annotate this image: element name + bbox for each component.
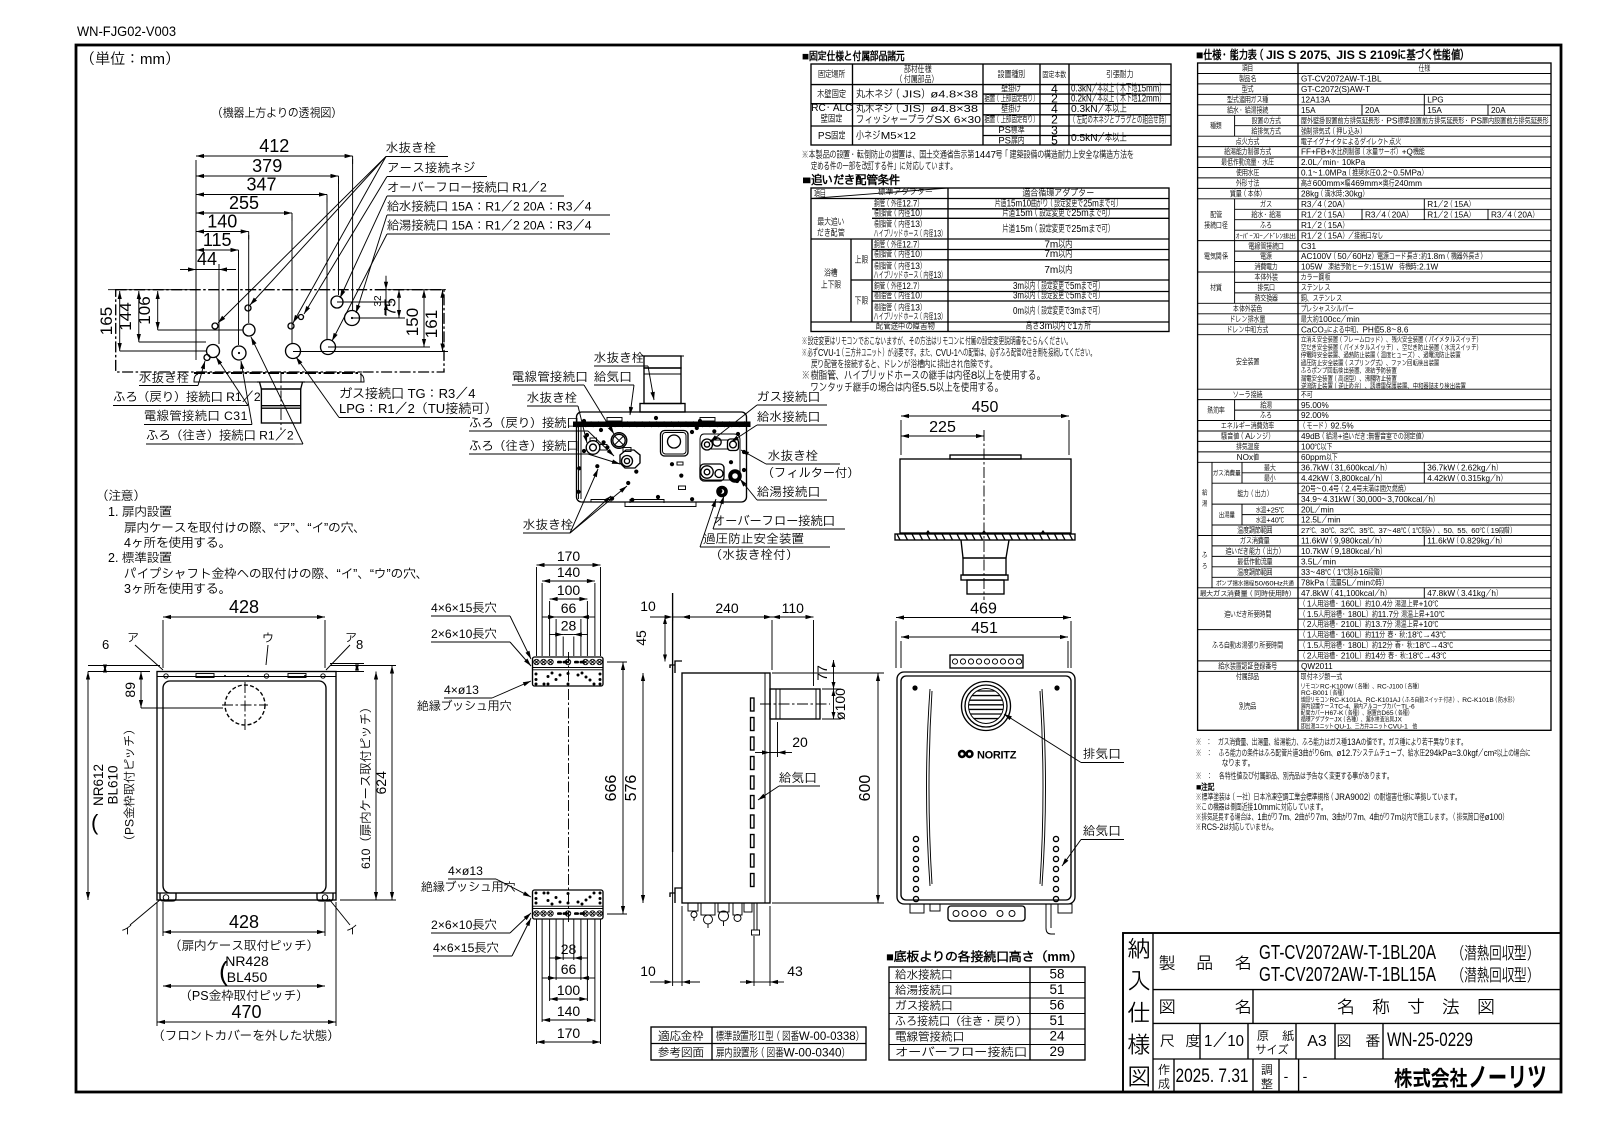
svg-text:即出湯ユニットQU-1、三方弁ユニットCVU-1 他: 即出湯ユニットQU-1、三方弁ユニットCVU-1 他 xyxy=(1300,721,1417,730)
svg-text:ふ: ふ xyxy=(1202,551,1208,560)
svg-text:43: 43 xyxy=(787,963,803,979)
svg-text:整: 整 xyxy=(1261,1077,1273,1091)
svg-text:原: 原 xyxy=(1257,1029,1269,1043)
row4 date xyxy=(1173,1059,1175,1092)
svg-text:製: 製 xyxy=(1159,955,1176,973)
port overflow xyxy=(331,296,343,308)
svg-text:※この機器は側面近接10mmに対応しています。: ※この機器は側面近接10mmに対応しています。 xyxy=(1196,801,1327,812)
svg-text:28: 28 xyxy=(561,618,577,634)
svg-text:給気口: 給気口 xyxy=(779,771,817,785)
exhaust hole dashed xyxy=(225,685,265,725)
svg-text:R1／2（15A）: R1／2（15A） xyxy=(1427,210,1474,219)
port furo-out xyxy=(243,324,255,336)
svg-text:(: ( xyxy=(91,810,99,835)
dim NR612 BL610 xyxy=(87,672,89,901)
svg-text:666: 666 xyxy=(603,775,620,802)
drain plugs small xyxy=(212,323,218,329)
rail top F xyxy=(533,657,604,686)
svg-text:11.6kW（0.829kg／h）: 11.6kW（0.829kg／h） xyxy=(1427,537,1506,546)
svg-text:調: 調 xyxy=(1261,1063,1273,1077)
svg-text:ø100: ø100 xyxy=(832,688,848,720)
dim 77 xyxy=(822,688,841,690)
center line duct xyxy=(280,372,282,430)
dim 412 xyxy=(196,155,353,157)
vent holes G xyxy=(913,836,918,901)
svg-text:ｵｰﾊﾞｰﾌﾛｰ／ﾄﾞﾚﾝ排出: ｵｰﾊﾞｰﾌﾛｰ／ﾄﾞﾚﾝ排出 xyxy=(1235,232,1297,240)
svg-text:なります。: なります。 xyxy=(1222,758,1254,768)
svg-text:追いだき所要時間: 追いだき所要時間 xyxy=(1224,609,1271,619)
svg-text:75: 75 xyxy=(383,298,400,316)
svg-text:株式会社: 株式会社 xyxy=(1394,1067,1468,1091)
svg-text:44: 44 xyxy=(197,249,217,269)
svg-text:428: 428 xyxy=(229,597,259,617)
port water in xyxy=(345,311,360,326)
rail bottom F xyxy=(533,890,604,919)
svg-text:140: 140 xyxy=(557,1003,581,1019)
svg-text:GT-C2072(S)AW-T: GT-C2072(S)AW-T xyxy=(1301,85,1370,94)
svg-text:据置（上部固定有り）: 据置（上部固定有り） xyxy=(985,115,1039,125)
right manifold frame xyxy=(700,434,740,480)
svg-text:図: 図 xyxy=(1128,1064,1151,1090)
dim 469 xyxy=(896,617,1071,619)
svg-text:ふろ接続口（往き・戻り）: ふろ接続口（往き・戻り） xyxy=(895,1014,1027,1028)
svg-text:4×ø13: 4×ø13 xyxy=(448,864,483,878)
svg-text:240: 240 xyxy=(715,600,739,616)
svg-text:図: 図 xyxy=(1159,999,1176,1017)
exhaust circle xyxy=(962,682,1011,731)
svg-text:※樹脂管、ハイブリッドホースの継手は内径8以上を使用する。: ※樹脂管、ハイブリッドホースの継手は内径8以上を使用する。 xyxy=(802,369,1045,382)
svg-text:浴槽: 浴槽 xyxy=(824,268,838,279)
svg-text:12A13A: 12A13A xyxy=(1301,96,1331,105)
bottom feet E xyxy=(157,892,336,894)
svg-text:作: 作 xyxy=(1158,1063,1170,1077)
svg-text:消費電力: 消費電力 xyxy=(1255,263,1279,272)
svg-text:33～48℃（1℃刻み16段階）: 33～48℃（1℃刻み16段階） xyxy=(1301,567,1386,577)
svg-text:水抜き栓: 水抜き栓 xyxy=(768,449,819,463)
svg-text:熱交換器: 熱交換器 xyxy=(1255,293,1279,303)
svg-text:428: 428 xyxy=(229,912,259,932)
svg-text:フィッシャープラグSX 6×30: フィッシャープラグSX 6×30 xyxy=(856,114,981,126)
svg-text:（注意）: （注意） xyxy=(96,489,146,503)
svg-text:255: 255 xyxy=(229,193,259,213)
svg-text:オーバーフロー接続口: オーバーフロー接続口 xyxy=(895,1045,1027,1059)
svg-text:扉内ケースを取付けの際、“ア”、“イ”の穴、: 扉内ケースを取付けの際、“ア”、“イ”の穴、 xyxy=(124,521,366,535)
svg-text:紙: 紙 xyxy=(1282,1029,1294,1043)
svg-text:4ヶ所を使用する。: 4ヶ所を使用する。 xyxy=(124,536,231,550)
conduit screw C31 xyxy=(611,433,627,449)
svg-text:給排気方式: 給排気方式 xyxy=(1251,126,1282,136)
svg-text:パイプシャフト金枠への取付けの際、“イ”、“ウ”の穴、: パイプシャフト金枠への取付けの際、“イ”、“ウ”の穴、 xyxy=(124,567,428,581)
svg-text:下限: 下限 xyxy=(855,296,869,307)
svg-text:水温+40℃: 水温+40℃ xyxy=(1256,516,1285,525)
svg-text:ハイブリッドホース（内径13）: ハイブリッドホース（内径13） xyxy=(873,312,946,322)
svg-text:WN-25-0229: WN-25-0229 xyxy=(1387,1029,1473,1051)
svg-text:品: 品 xyxy=(1197,955,1214,973)
svg-text:100℃以下: 100℃以下 xyxy=(1301,443,1332,452)
dim 44 xyxy=(195,263,197,360)
table oidaki diagonal xyxy=(811,188,948,199)
svg-text:電線管接続口: 電線管接続口 xyxy=(895,1030,964,1044)
svg-text:ガス接続口 TG：R3／4: ガス接続口 TG：R3／4 xyxy=(339,386,476,401)
svg-text:給水接続口: 給水接続口 xyxy=(895,968,953,982)
svg-text:2. 標準設置: 2. 標準設置 xyxy=(108,551,172,565)
svg-text:最大追い: 最大追い xyxy=(816,217,844,228)
svg-text:※ ： ふろ能力の条件はふろ配管片道3曲がり6m、ø12.7: ※ ： ふろ能力の条件はふろ配管片道3曲がり6m、ø12.7システムチューブ、給… xyxy=(1196,747,1531,758)
svg-text:出湯量: 出湯量 xyxy=(1219,510,1235,519)
svg-text:2×6×10長穴: 2×6×10長穴 xyxy=(431,627,497,641)
svg-text:（PS金枠取付ピッチ）: （PS金枠取付ピッチ） xyxy=(123,723,137,847)
svg-text:15A: 15A xyxy=(1301,106,1316,115)
dim 75 xyxy=(398,290,400,318)
svg-text:壁掛け: 壁掛け xyxy=(1000,104,1022,115)
svg-text:R1／2（15A）: R1／2（15A） xyxy=(1427,200,1474,209)
side body F xyxy=(682,673,770,903)
svg-text:成: 成 xyxy=(1158,1077,1170,1091)
svg-text:上限: 上限 xyxy=(855,255,869,266)
svg-text:R1／2（15A）: R1／2（15A） xyxy=(1301,210,1348,219)
svg-text:34.9～4.31kW（30,000～3,700kcal／h: 34.9～4.31kW（30,000～3,700kcal／h） xyxy=(1301,495,1439,504)
svg-text:R3／4（20A）: R3／4（20A） xyxy=(1301,200,1348,209)
svg-text:469: 469 xyxy=(970,601,997,618)
svg-text:別売品: 別売品 xyxy=(1239,702,1257,711)
svg-text:ハイブリッドホース（内径13）: ハイブリッドホース（内径13） xyxy=(873,229,946,239)
svg-text:過圧防止安全装置: 過圧防止安全装置 xyxy=(703,532,805,546)
svg-text:※必ずCVU-1（三方弁ユニット）が必要です。また、CVU-: ※必ずCVU-1（三方弁ユニット）が必要です。また、CVU-1への配管は、必ずふ… xyxy=(802,347,1096,359)
svg-text:47.8kW（41,100kcal／h）: 47.8kW（41,100kcal／h） xyxy=(1301,589,1391,598)
svg-text:ワンタッチ継手の場合は内径5.5以上を使用する。: ワンタッチ継手の場合は内径5.5以上を使用する。 xyxy=(811,381,1003,394)
table heights grid xyxy=(889,967,1085,1060)
svg-text:だき配管: だき配管 xyxy=(817,227,845,239)
svg-text:名: 名 xyxy=(1235,999,1252,1017)
svg-text:※排気延長する場合は、1曲がり7m、2曲がり7m、3曲がり7: ※排気延長する場合は、1曲がり7m、2曲がり7m、3曲がり7m、4曲がり7m以内… xyxy=(1196,811,1508,822)
svg-text:排気口: 排気口 xyxy=(1257,284,1275,293)
svg-text:-: - xyxy=(1284,1068,1289,1084)
svg-text:ふろ: ふろ xyxy=(1260,411,1272,420)
port gas xyxy=(286,344,301,359)
svg-text:2×6×10長穴: 2×6×10長穴 xyxy=(431,918,497,932)
svg-text:給水・給湯接続: 給水・給湯接続 xyxy=(1226,105,1268,115)
dim 255 xyxy=(196,212,292,214)
svg-text:本体外装: 本体外装 xyxy=(1254,272,1279,282)
svg-text:ドレン排水量: ドレン排水量 xyxy=(1230,315,1265,324)
svg-text:設置種別: 設置種別 xyxy=(998,69,1025,81)
bracket trapezoid G xyxy=(961,540,1009,558)
svg-text:称: 称 xyxy=(1372,997,1390,1017)
svg-text:1／10: 1／10 xyxy=(1204,1033,1244,1050)
svg-text:（1.5人用浴槽・180L）約11.7分 湯温上昇+10℃: （1.5人用浴槽・180L）約11.7分 湯温上昇+10℃ xyxy=(1301,609,1445,619)
front body G xyxy=(897,672,1075,904)
svg-text:140: 140 xyxy=(207,212,237,232)
svg-text:20L／min: 20L／min xyxy=(1301,505,1334,514)
svg-text:576: 576 xyxy=(623,775,640,802)
dim 347 xyxy=(196,194,327,196)
svg-text:排気温度: 排気温度 xyxy=(1236,442,1260,452)
dim 428 bottom xyxy=(163,931,325,933)
svg-text:GT-CV2072AW-T-1BL: GT-CV2072AW-T-1BL xyxy=(1301,75,1382,84)
mid valve furo xyxy=(620,450,640,468)
svg-text:外形寸法: 外形寸法 xyxy=(1236,178,1260,188)
svg-text:水温+25℃: 水温+25℃ xyxy=(1256,505,1285,514)
svg-text:ふろ: ふろ xyxy=(1260,221,1272,230)
small dots D xyxy=(585,433,589,437)
svg-text:騒音値（Aレンジ）: 騒音値（Aレンジ） xyxy=(1221,432,1274,441)
svg-text:ふろ（往き）接続口 R1／2: ふろ（往き）接続口 R1／2 xyxy=(146,429,294,443)
svg-text:設置の方式: 設置の方式 xyxy=(1252,116,1282,125)
svg-text:106: 106 xyxy=(135,296,154,324)
svg-text:ドレン中和方式: ドレン中和方式 xyxy=(1227,325,1268,334)
svg-text:51: 51 xyxy=(1049,982,1064,997)
dim o100 xyxy=(822,718,841,720)
svg-text:固定場所: 固定場所 xyxy=(818,69,846,81)
svg-text:NR428: NR428 xyxy=(225,953,269,969)
svg-text:20A: 20A xyxy=(1491,106,1506,115)
svg-text:最大ガス消費量（同時使用時）: 最大ガス消費量（同時使用時） xyxy=(1200,589,1296,598)
svg-text:R3／4（20A）: R3／4（20A） xyxy=(1491,210,1538,219)
svg-text:適合循環アダプター: 適合循環アダプター xyxy=(1023,187,1095,199)
svg-text:固定本数: 固定本数 xyxy=(1043,70,1067,80)
svg-text:イ: イ xyxy=(121,923,133,937)
svg-text:24: 24 xyxy=(1049,1029,1065,1044)
svg-text:電線管接続口: 電線管接続口 xyxy=(512,370,588,384)
svg-text:給水接続口: 給水接続口 xyxy=(757,410,820,424)
svg-text:■追いだき配管条件: ■追いだき配管条件 xyxy=(802,173,901,187)
svg-text:20: 20 xyxy=(792,734,808,750)
svg-text:■固定仕様と付属部品諸元: ■固定仕様と付属部品諸元 xyxy=(802,49,905,63)
overflow dark xyxy=(716,486,728,498)
svg-text:（単位：mm）: （単位：mm） xyxy=(80,50,180,68)
svg-text:7m以内: 7m以内 xyxy=(1044,265,1072,276)
svg-text:100: 100 xyxy=(557,582,581,598)
svg-text:PS標準: PS標準 xyxy=(998,125,1025,136)
svg-text:AC100V（50／60Hz）電源コード長さ:約1.8m（機: AC100V（50／60Hz）電源コード長さ:約1.8m（機器外長さ） xyxy=(1301,251,1486,261)
svg-text:ふろ（往き）接続口: ふろ（往き）接続口 xyxy=(469,439,579,453)
svg-text:451: 451 xyxy=(971,620,998,637)
svg-text:（フィルター付）: （フィルター付） xyxy=(762,466,860,480)
spec texts xyxy=(1200,63,1549,730)
svg-text:取付ネジ類一式: 取付ネジ類一式 xyxy=(1300,672,1342,682)
svg-text:※標準塗装は（一社）日本冷凍空調工業会標準規格（JRA900: ※標準塗装は（一社）日本冷凍空調工業会標準規格（JRA9002）の耐塩害仕様に準… xyxy=(1196,791,1461,802)
ladder bottom F xyxy=(563,957,574,959)
dim 450 xyxy=(901,415,1069,417)
bottom bracket side xyxy=(670,888,682,903)
dim 89 xyxy=(140,672,142,709)
svg-text:（1人用浴槽・160L）約10.4分 湯温上昇+10℃: （1人用浴槽・160L）約10.4分 湯温上昇+10℃ xyxy=(1301,598,1439,608)
svg-text:4.42kW（0.315kg／h）: 4.42kW（0.315kg／h） xyxy=(1427,474,1506,483)
svg-text:0.1～1.0MPa（推奨水圧0.2～0.5MPa）: 0.1～1.0MPa（推奨水圧0.2～0.5MPa） xyxy=(1301,168,1427,178)
svg-text:115: 115 xyxy=(203,230,232,250)
svg-text:3m以内（設定変更で5mまで可）: 3m以内（設定変更で5mまで可） xyxy=(1013,291,1104,302)
svg-text:45: 45 xyxy=(633,630,649,646)
svg-text:※本製品の設置・転倒防止の措置は、国土交通省告示第1447号: ※本製品の設置・転倒防止の措置は、国土交通省告示第1447号「建築設備の構造耐力… xyxy=(802,149,1134,161)
dim 624 right xyxy=(391,666,393,901)
svg-text:（PS金枠取付ピッチ）: （PS金枠取付ピッチ） xyxy=(179,989,308,1003)
svg-text:※ ： ガス消費量、出湯量、給湯能力、ふろ能力はガス種13A: ※ ： ガス消費量、出湯量、給湯能力、ふろ能力はガス種13Aの値です。ガス種によ… xyxy=(1196,736,1467,747)
svg-text:165: 165 xyxy=(97,307,116,335)
svg-text:2.0L／min・10kPa: 2.0L／min・10kPa xyxy=(1301,158,1366,167)
svg-text:47.8kW（3.41kg／h）: 47.8kW（3.41kg／h） xyxy=(1427,589,1502,598)
drain small l xyxy=(204,355,210,361)
svg-text:給湯接続口: 給湯接続口 xyxy=(895,983,953,997)
svg-text:製品名: 製品名 xyxy=(1238,75,1257,84)
svg-text:ア: ア xyxy=(127,631,139,645)
bottom tabs xyxy=(590,499,592,502)
svg-text:扉内設置形（図番W-00-0340）: 扉内設置形（図番W-00-0340） xyxy=(716,1047,850,1060)
svg-text:項目: 項目 xyxy=(1242,64,1254,73)
svg-text:本体外装色: 本体外装色 xyxy=(1232,304,1263,314)
svg-text:29: 29 xyxy=(1049,1044,1064,1059)
svg-text:49dB（給湯+追いだき:無響音室での測定値）: 49dB（給湯+追いだき:無響音室での測定値） xyxy=(1301,431,1427,441)
svg-text:水抜き栓: 水抜き栓 xyxy=(386,141,437,155)
svg-text:片道15m（設定変更で25mまで可）: 片道15m（設定変更で25mまで可） xyxy=(1003,223,1115,235)
svg-text:寸: 寸 xyxy=(1407,997,1425,1017)
row3 scale xyxy=(1199,1023,1201,1059)
svg-text:C31: C31 xyxy=(1301,242,1316,251)
port hot water xyxy=(321,340,336,355)
side dims top xyxy=(672,613,674,621)
svg-text:（機器上方よりの透視図）: （機器上方よりの透視図） xyxy=(212,106,342,120)
svg-text:60ppm以下: 60ppm以下 xyxy=(1301,453,1338,462)
svg-text:最低作動流量・水圧: 最低作動流量・水圧 xyxy=(1220,157,1274,167)
svg-text:ふろ（戻り）接続口: ふろ（戻り）接続口 xyxy=(469,416,579,430)
svg-text:36.7kW（2.62kg／h）: 36.7kW（2.62kg／h） xyxy=(1427,464,1502,473)
svg-text:配管途中の障害物: 配管途中の障害物 xyxy=(876,320,935,331)
ladder top F xyxy=(537,564,601,566)
svg-text:ガス消費量: ガス消費量 xyxy=(1212,469,1241,478)
svg-text:150: 150 xyxy=(403,308,422,336)
svg-text:電線管接続口 C31: 電線管接続口 C31 xyxy=(144,409,248,423)
svg-text:78kPa（流量5L／minの時）: 78kPa（流量5L／minの時） xyxy=(1301,578,1388,587)
svg-text:450: 450 xyxy=(972,399,999,416)
svg-text:PS扉内: PS扉内 xyxy=(998,136,1024,147)
svg-text:170: 170 xyxy=(557,1025,581,1041)
svg-text:ガス消費量: ガス消費量 xyxy=(1240,536,1270,546)
corner screws xyxy=(912,685,917,690)
svg-text:木壁固定: 木壁固定 xyxy=(816,90,846,101)
dim 379 xyxy=(196,175,339,177)
svg-text:（モード）92.5%: （モード）92.5% xyxy=(1301,422,1354,431)
noritz logo G xyxy=(958,750,974,758)
svg-text:2025. 7.31: 2025. 7.31 xyxy=(1176,1066,1249,1087)
svg-text:BL450: BL450 xyxy=(227,969,268,985)
svg-text:オーバーフロー接続口: オーバーフロー接続口 xyxy=(713,514,835,528)
svg-text:89: 89 xyxy=(122,682,138,698)
top bracket G xyxy=(950,655,1023,668)
svg-text:（水抜き栓付）: （水抜き栓付） xyxy=(710,548,799,562)
svg-text:470: 470 xyxy=(231,1002,261,1022)
svg-text:電子イグナイタによるダイレクト点火: 電子イグナイタによるダイレクト点火 xyxy=(1301,136,1401,146)
svg-text:エネルギー消費効率: エネルギー消費効率 xyxy=(1221,421,1274,431)
svg-text:66: 66 xyxy=(561,961,577,977)
body outline top view xyxy=(116,290,444,372)
svg-text:347: 347 xyxy=(246,175,276,195)
top bracket side xyxy=(670,661,682,673)
water inlet cluster xyxy=(702,439,713,450)
svg-text:20A: 20A xyxy=(1365,106,1380,115)
svg-text:R1／2（15A）／接続口なし: R1／2（15A）／接続口なし xyxy=(1301,230,1384,240)
svg-text:給水接続口 15A：R1／2 20A：R3／4: 給水接続口 15A：R1／2 20A：R3／4 xyxy=(387,200,592,214)
flange G xyxy=(895,534,1075,540)
svg-text:銅管（外径12.7）: 銅管（外径12.7） xyxy=(873,199,923,209)
svg-text:湯: 湯 xyxy=(1202,499,1207,508)
svg-text:不可: 不可 xyxy=(1300,390,1313,399)
svg-text:5: 5 xyxy=(1051,134,1058,148)
svg-text:標準アダプター: 標準アダプター xyxy=(878,187,933,197)
svg-text:58: 58 xyxy=(1049,967,1064,982)
svg-text:増設リモコンRC-K101A、RC-K101AJ（ふろ自動ス: 増設リモコンRC-K101A、RC-K101AJ（ふろ自動スイッチ付き）、RC-… xyxy=(1300,695,1518,704)
center line G xyxy=(983,430,985,600)
svg-text:温度調節範囲: 温度調節範囲 xyxy=(1236,567,1272,577)
dim 115 xyxy=(196,249,239,251)
svg-text:170: 170 xyxy=(557,548,581,564)
svg-text:144: 144 xyxy=(116,302,135,330)
svg-text:GT-CV2072AW-T-1BL15A: GT-CV2072AW-T-1BL15A xyxy=(1259,964,1437,986)
svg-text:熱効率: 熱効率 xyxy=(1207,406,1225,415)
svg-text:法: 法 xyxy=(1442,997,1460,1017)
svg-text:0m以内（設定変更で3mまで可）: 0m以内（設定変更で3mまで可） xyxy=(1013,306,1104,317)
svg-text:WN-FJG02-V003: WN-FJG02-V003 xyxy=(77,23,176,39)
svg-text:66: 66 xyxy=(561,600,577,616)
svg-text:140: 140 xyxy=(557,564,581,580)
svg-text:4.42kW（3,800kcal／h）: 4.42kW（3,800kcal／h） xyxy=(1301,474,1386,483)
left channel xyxy=(578,427,580,499)
mount flange phantom xyxy=(194,372,359,374)
svg-text:110: 110 xyxy=(782,600,805,616)
gas cock xyxy=(700,464,724,481)
svg-text:樹脂管（内径10）: 樹脂管（内径10） xyxy=(874,291,926,301)
title block frame xyxy=(1123,933,1561,1092)
svg-text:銅管（外径12.7）: 銅管（外径12.7） xyxy=(873,240,923,250)
dim 161 xyxy=(442,290,444,352)
svg-text:LPG: LPG xyxy=(1427,96,1443,105)
svg-text:7m以内: 7m以内 xyxy=(1044,249,1072,260)
svg-text:（2人用浴槽・210L）約14分 春・秋:18℃→43℃: （2人用浴槽・210L）約14分 春・秋:18℃→43℃ xyxy=(1301,652,1446,661)
svg-text:様: 様 xyxy=(1128,1032,1151,1058)
svg-text:配管: 配管 xyxy=(1210,210,1222,220)
svg-text:ポンプ揚水揚程50/60Hz共通: ポンプ揚水揚程50/60Hz共通 xyxy=(1216,579,1294,587)
dim 666 xyxy=(622,662,624,914)
svg-text:据置（上部固定有り）: 据置（上部固定有り） xyxy=(985,94,1039,104)
svg-text:水抜き栓: 水抜き栓 xyxy=(139,371,190,385)
svg-text:入: 入 xyxy=(1128,968,1151,994)
svg-text:0.5kN／本以上: 0.5kN／本以上 xyxy=(1071,132,1127,144)
svg-text:高さ3m以内で1ヵ所: 高さ3m以内で1ヵ所 xyxy=(1026,320,1091,332)
svg-text:（1.5人用浴槽・180L）約12分 春・秋:18℃→43℃: （1.5人用浴槽・180L）約12分 春・秋:18℃→43℃ xyxy=(1301,641,1453,650)
svg-text:600: 600 xyxy=(857,775,874,802)
svg-text:度: 度 xyxy=(1186,1034,1201,1050)
svg-text:給湯能力制御方式: 給湯能力制御方式 xyxy=(1223,147,1271,157)
left dim 144 xyxy=(138,291,140,342)
svg-text:ハイブリッドホース（内径13）: ハイブリッドホース（内径13） xyxy=(873,270,946,280)
svg-text:LPG：R1／2（TU接続可）: LPG：R1／2（TU接続可） xyxy=(339,401,497,416)
svg-text:電源: 電源 xyxy=(1260,251,1272,261)
svg-text:仕: 仕 xyxy=(1128,1000,1151,1026)
svg-text:R1／2（15A）: R1／2（15A） xyxy=(1301,221,1348,230)
top view G body xyxy=(900,459,1071,533)
svg-text:■仕様・能力表（JIS S 2075、JIS S 2109に: ■仕様・能力表（JIS S 2075、JIS S 2109に基づく性能値） xyxy=(1196,47,1469,62)
svg-text:強制排気式（押し込み）: 強制排気式（押し込み） xyxy=(1301,126,1366,136)
svg-text:※RCS-2は対応していません。: ※RCS-2は対応していません。 xyxy=(1196,822,1277,832)
exhaust pipe xyxy=(644,368,681,404)
table kotei grid xyxy=(811,64,1171,145)
svg-text:R3／4（20A）: R3／4（20A） xyxy=(1365,210,1412,219)
blower housing xyxy=(661,431,689,457)
svg-text:型式適用ガス種: 型式適用ガス種 xyxy=(1227,95,1268,105)
svg-text:適応金枠: 適応金枠 xyxy=(658,1030,704,1043)
side vents xyxy=(751,698,755,887)
svg-text:電気関係: 電気関係 xyxy=(1204,251,1228,261)
svg-text:36.7kW（31,600kcal／h）: 36.7kW（31,600kcal／h） xyxy=(1301,464,1391,473)
svg-text:水抜き栓: 水抜き栓 xyxy=(523,518,574,532)
